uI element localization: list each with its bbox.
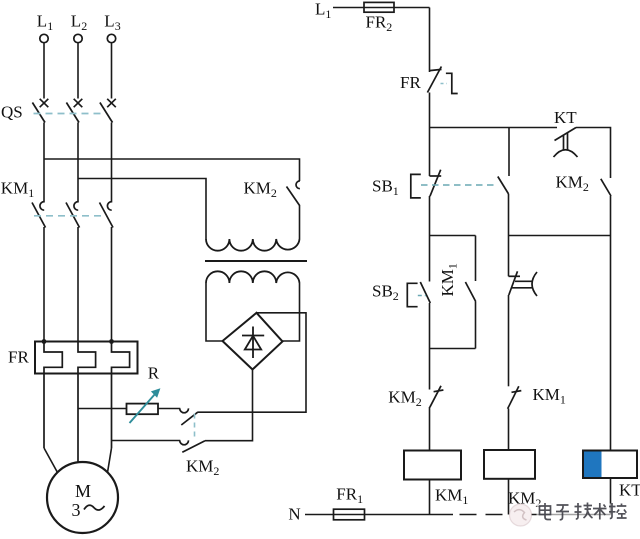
SB2 actuator bracket: [407, 283, 417, 306]
contact KT delayed top (blade): [554, 128, 578, 158]
wire to KM1 coil: [429, 407, 431, 451]
rail under watermark: [531, 514, 611, 516]
FR hook dashed link: [441, 83, 447, 85]
FR heater element 3: [112, 342, 130, 449]
wire pole2 to KM1: [77, 123, 79, 203]
svg-text:FR: FR: [8, 348, 29, 367]
parallel loop top: [430, 235, 476, 237]
contact KM2 right branch: [601, 179, 611, 196]
svg-text:KT: KT: [554, 108, 577, 127]
node L1 terminal: [40, 34, 48, 42]
wire SB2 down: [429, 303, 431, 390]
resistor R arrow: [130, 389, 160, 423]
loop right upper: [475, 236, 477, 282]
svg-text:N: N: [288, 504, 300, 523]
wire to KM2 coil: [508, 409, 510, 451]
watermark text dian: [540, 503, 627, 520]
SB1 linkage dashed: [421, 184, 498, 186]
transformer secondary winding: [206, 271, 300, 283]
FR trip hook: [446, 73, 458, 93]
wire tie middle-right: [509, 235, 611, 237]
FR heater element 2: [78, 342, 96, 463]
watermark text ji: [575, 503, 593, 520]
watermark text kong: [609, 503, 627, 519]
contactor KM1 pole 2: [66, 202, 80, 228]
wire secondary right down: [283, 283, 300, 341]
fuse FR2: [364, 2, 394, 12]
contact KM2 bypass upper: [180, 408, 198, 425]
wire R to KM2 bypass upper: [158, 408, 180, 410]
wire lower bypass to rectifier minus: [205, 370, 253, 441]
neutral rail N: [305, 514, 334, 516]
resistor R body: [127, 404, 159, 415]
wire KT coil to rail: [610, 478, 612, 515]
wire L3 drop: [111, 43, 113, 99]
wire secondary left down: [206, 283, 223, 341]
junction dot: [109, 339, 114, 344]
pushbutton SB2 NO: [420, 282, 430, 303]
wire FR to bus: [429, 93, 431, 177]
wire KM2 coil to rail: [508, 479, 510, 515]
QS linkage dashed: [34, 113, 105, 115]
wire SB1 down to loop: [429, 196, 431, 282]
wire feed upper to KM2 primary contact: [44, 159, 300, 181]
wire right branch down: [610, 196, 612, 451]
coil KM1: [404, 451, 461, 480]
wire motor lead right: [108, 448, 112, 473]
wire lower bypass feed: [112, 440, 181, 442]
control: wire from L1: [333, 7, 430, 9]
contact SB1 NO (middle branch): [498, 177, 509, 195]
svg-text:FR: FR: [400, 73, 421, 92]
watermark text shu: [593, 503, 607, 520]
rectifier bridge diamond: [223, 313, 283, 370]
svg-text:R: R: [148, 363, 160, 382]
transformer core separator: [205, 260, 307, 262]
thermal relay FR box: [35, 342, 138, 374]
wire L2 drop: [77, 43, 79, 99]
wire KM1 pole2 down: [77, 227, 79, 342]
KM1 linkage dashed: [34, 215, 102, 217]
switch QS pole 3: [100, 99, 116, 123]
svg-text:KT: KT: [619, 480, 640, 499]
wire middle branch: [508, 194, 510, 276]
wire KM1 pole1 down: [43, 227, 45, 342]
rail segment: [365, 514, 454, 516]
coil KT: [583, 451, 637, 479]
wire KM2 primary to winding: [299, 205, 301, 239]
contact KM2 NC interlock: [430, 386, 444, 408]
rectifier diode: [242, 327, 264, 359]
svg-text:QS: QS: [1, 103, 23, 122]
wire KT contact to right branch: [576, 128, 611, 179]
contact KT NC delayed (middle): [509, 271, 538, 296]
wire middle branch lower: [508, 295, 510, 386]
wire down to FR contact: [429, 8, 431, 73]
svg-text:3: 3: [72, 500, 81, 520]
watermark text zi: [556, 505, 569, 520]
coil KM2: [484, 450, 535, 479]
rail dashes (watermark gap): [460, 514, 477, 516]
watermark halo: [537, 504, 630, 522]
SB1 actuator bracket: [411, 174, 421, 198]
motor M circle: [47, 462, 118, 533]
contact FR normally-closed: [427, 67, 441, 93]
loop right lower: [475, 302, 477, 349]
svg-text:M: M: [75, 481, 91, 501]
junction dot: [42, 339, 47, 344]
node L3 terminal: [107, 34, 115, 42]
contactor KM1 pole 1: [32, 202, 46, 228]
control bus horizontal: [430, 127, 558, 129]
transformer primary winding: [206, 239, 300, 251]
contact KM1 NC interlock: [508, 386, 522, 409]
wire pole1 to KM1: [43, 123, 45, 203]
wire feed lower to transformer primary left: [78, 179, 206, 240]
wire KM1 coil to rail: [429, 480, 431, 515]
SB2 linkage dashed: [418, 295, 426, 297]
pushbutton SB1 NC: [430, 170, 442, 197]
wire middle branch top: [508, 128, 510, 177]
FR heater element 1: [44, 342, 62, 449]
loop bottom: [430, 348, 476, 350]
wire KM1 pole3 down: [111, 227, 113, 342]
contact KM1 NO self-hold: [465, 282, 475, 302]
fuse FR1: [334, 509, 365, 520]
node L2 terminal: [74, 34, 82, 42]
resistor R branch wire: [78, 408, 127, 410]
KM2 bypass linkage dashed: [194, 414, 196, 441]
switch QS pole 2: [66, 99, 82, 123]
contact KM2 primary: [287, 181, 300, 206]
wire motor lead left: [44, 448, 58, 473]
contact KM2 bypass lower: [180, 440, 205, 452]
wire upper bypass to rectifier plus: [198, 313, 307, 412]
switch QS pole 1: [32, 99, 48, 123]
contactor KM1 pole 3: [100, 202, 114, 228]
wire pole3 to KM1: [111, 123, 113, 203]
watermark logo: [510, 504, 532, 526]
wire L1 drop: [43, 43, 45, 99]
